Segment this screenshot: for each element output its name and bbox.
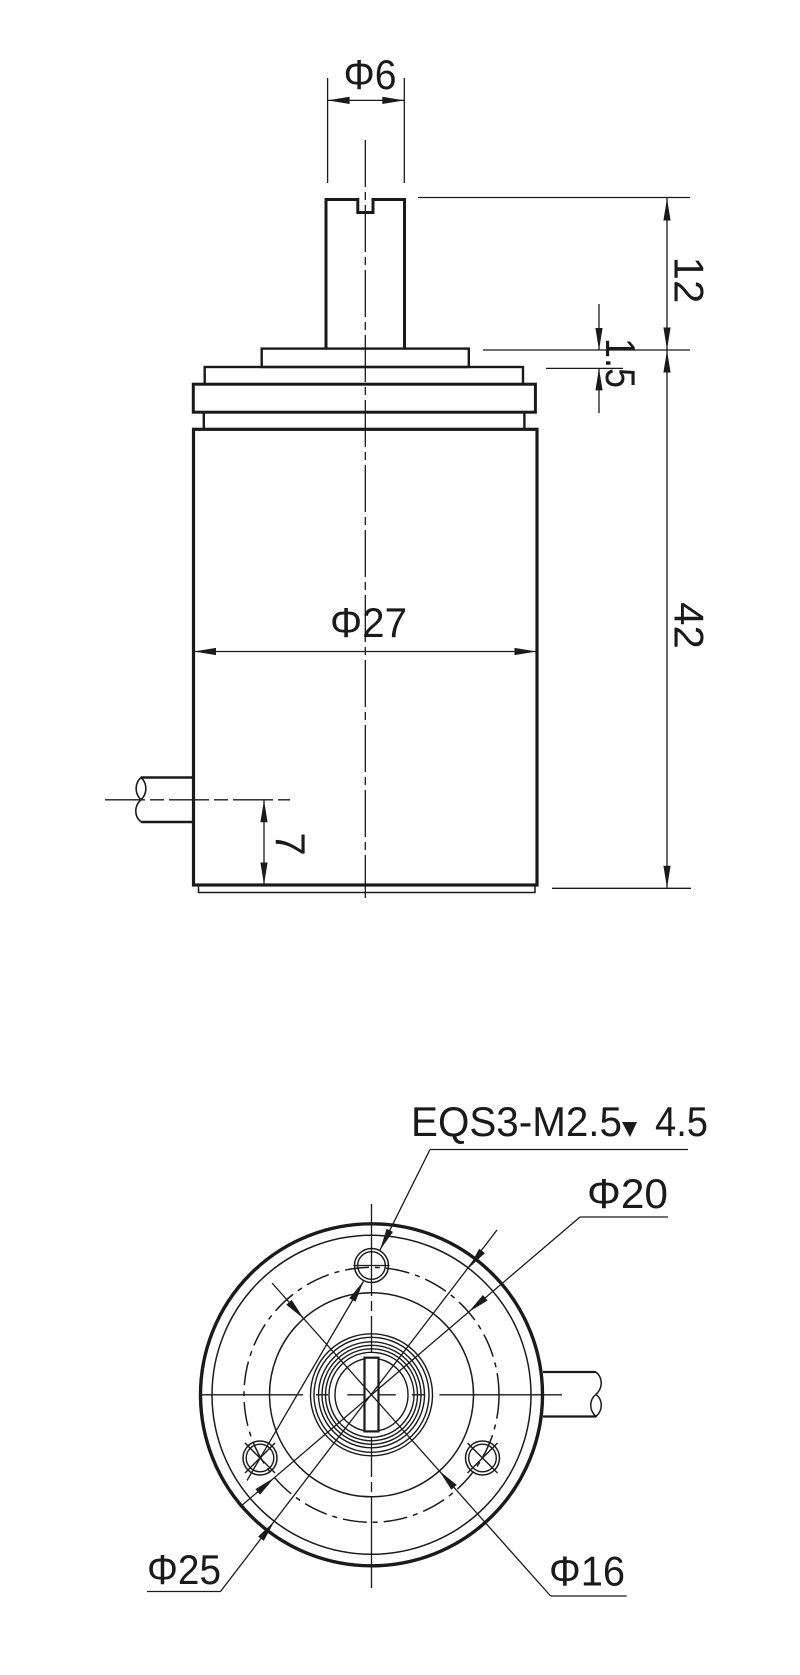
svg-text:12: 12 xyxy=(666,257,713,304)
bottom cap lip (side view) xyxy=(199,885,536,893)
dimension Phi25 leader with arrows xyxy=(147,1591,221,1593)
svg-text:Φ20: Φ20 xyxy=(587,1170,668,1217)
shaft slot (face view) xyxy=(365,1358,379,1432)
horizontal centerline (face view) xyxy=(199,1394,562,1396)
dimension 1.5 line with arrows xyxy=(598,304,600,350)
svg-text:EQS3-M2.5: EQS3-M2.5 xyxy=(411,1098,622,1145)
screw hole top M2.5 xyxy=(355,1249,389,1283)
svg-text:7: 7 xyxy=(267,832,314,855)
bolt circle Phi20 dash-dot (face view) xyxy=(244,1267,499,1522)
cable centerline (side view) xyxy=(105,799,290,801)
cable stub (face view right) xyxy=(543,1371,596,1373)
flange step Phi25 lower (side view) xyxy=(204,412,525,429)
svg-text:Φ16: Φ16 xyxy=(549,1548,625,1595)
dimension Phi27 line with arrows xyxy=(194,651,538,653)
leader EQS3 with arrow xyxy=(430,1149,688,1151)
svg-text:1.5: 1.5 xyxy=(597,338,644,388)
circle Phi25 (face view) xyxy=(212,1235,531,1554)
label EQS3 comma wedge xyxy=(622,1122,637,1137)
svg-text:Φ25: Φ25 xyxy=(147,1546,221,1593)
screw hole bottom-left M2.5 xyxy=(243,1441,277,1475)
main body Phi27 x42 (side view) xyxy=(194,429,538,885)
shaft with slot (side view) xyxy=(326,200,405,349)
dimension 12 line with arrows xyxy=(666,198,668,350)
extension line step top xyxy=(546,367,623,369)
circle Phi16 (face view) xyxy=(270,1293,474,1497)
dimension Phi16 leader with arrows xyxy=(551,1595,627,1597)
screw hole bottom-right M2.5 xyxy=(466,1441,500,1475)
svg-text:Φ6: Φ6 xyxy=(344,51,397,98)
cable stub (side view left) xyxy=(141,776,194,778)
dimension Phi20 leader with arrows xyxy=(580,1216,668,1218)
extension line body bottom xyxy=(552,887,691,889)
dimension Phi6 extension lines xyxy=(327,78,329,183)
ring Phi27 (side view) xyxy=(193,384,535,412)
dimension Phi6 line with arrows xyxy=(328,99,405,101)
dimension 42 line with arrows xyxy=(666,350,668,888)
flange step Phi16 x1.5 (side view) xyxy=(262,349,469,367)
center shaft rings (face view) xyxy=(335,1358,408,1431)
outer circle Phi27 (face view) xyxy=(201,1224,543,1566)
extension line flange top xyxy=(483,349,690,351)
flange step Phi25 upper (side view) xyxy=(205,367,523,384)
vertical centerline (face view) xyxy=(371,1204,373,1588)
svg-text:4.5: 4.5 xyxy=(655,1098,708,1145)
hole spacing line with arrow xyxy=(247,1282,364,1481)
vertical centerline (side view) xyxy=(364,140,366,898)
extension line shaft top xyxy=(418,197,690,199)
svg-text:Φ27: Φ27 xyxy=(330,599,407,646)
svg-text:42: 42 xyxy=(666,602,713,649)
dimension 7 line with arrows xyxy=(263,800,265,885)
